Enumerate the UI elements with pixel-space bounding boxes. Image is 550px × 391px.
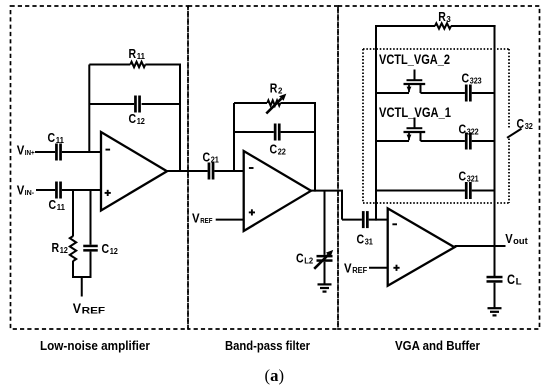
svg-text:(a): (a) — [265, 366, 285, 385]
svg-text:11: 11 — [56, 135, 64, 145]
svg-text:C: C — [102, 241, 110, 256]
svg-text:11: 11 — [137, 51, 145, 61]
svg-text:VCTL_VGA_1: VCTL_VGA_1 — [379, 105, 451, 120]
svg-text:R: R — [438, 9, 446, 24]
svg-text:VCTL_VGA_2: VCTL_VGA_2 — [379, 52, 450, 67]
svg-text:V: V — [192, 210, 200, 225]
svg-text:Low-noise amplifier: Low-noise amplifier — [40, 339, 150, 353]
svg-text:IN+: IN+ — [25, 150, 35, 157]
svg-text:R: R — [52, 240, 60, 255]
svg-text:R: R — [129, 46, 137, 61]
svg-text:C: C — [462, 71, 470, 86]
svg-text:V: V — [73, 301, 81, 316]
svg-text:C: C — [459, 121, 467, 136]
svg-text:C: C — [270, 141, 278, 156]
svg-text:31: 31 — [365, 236, 373, 246]
svg-text:REF: REF — [352, 266, 367, 275]
svg-text:V: V — [17, 183, 25, 198]
svg-text:C: C — [507, 272, 515, 287]
svg-text:VGA and Buffer: VGA and Buffer — [395, 339, 480, 353]
svg-text:322: 322 — [467, 126, 479, 136]
svg-text:C: C — [357, 231, 365, 246]
svg-text:321: 321 — [467, 173, 479, 183]
svg-text:Band-pass filter: Band-pass filter — [225, 339, 310, 353]
svg-text:12: 12 — [110, 246, 118, 256]
svg-text:C: C — [48, 130, 56, 145]
svg-text:21: 21 — [211, 154, 219, 164]
svg-text:C: C — [296, 251, 304, 266]
svg-text:L2: L2 — [304, 256, 313, 266]
svg-text:12: 12 — [60, 245, 68, 255]
svg-text:323: 323 — [470, 76, 482, 86]
svg-text:2: 2 — [278, 86, 283, 96]
svg-text:R: R — [270, 81, 278, 96]
svg-text:out: out — [513, 236, 528, 246]
svg-text:22: 22 — [278, 146, 286, 156]
svg-text:12: 12 — [137, 116, 145, 126]
svg-text:C: C — [203, 149, 211, 164]
svg-text:C: C — [459, 168, 467, 183]
svg-text:C: C — [517, 116, 525, 131]
svg-text:V: V — [344, 261, 352, 276]
svg-text:11: 11 — [57, 202, 65, 212]
svg-text:IN-: IN- — [25, 190, 35, 197]
svg-text:C: C — [129, 111, 137, 126]
svg-text:3: 3 — [446, 14, 451, 24]
svg-text:REF: REF — [200, 216, 213, 225]
svg-text:L: L — [516, 277, 522, 288]
svg-text:32: 32 — [525, 121, 533, 131]
svg-text:V: V — [505, 231, 513, 246]
svg-text:C: C — [49, 197, 57, 212]
svg-text:V: V — [17, 143, 25, 158]
svg-text:REF: REF — [82, 306, 106, 317]
